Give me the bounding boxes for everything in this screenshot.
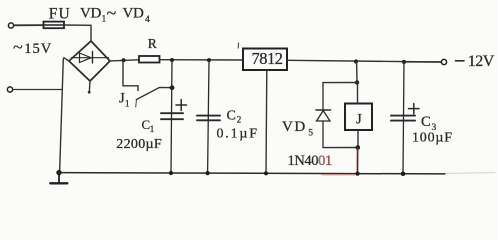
svg-text:4: 4: [145, 15, 150, 25]
wire (7812 ground pin): [265, 70, 268, 173]
wire (bottom rail): [59, 173, 445, 174]
terminal T1 (AC input top): [8, 23, 13, 28]
node (C3 to rail): [401, 171, 406, 176]
regulator U1 7812: [243, 49, 287, 71]
node E: [402, 60, 406, 64]
node G: [356, 145, 361, 150]
wire: [357, 148, 359, 174]
node A: [122, 58, 126, 62]
wire (bridge negative stub): [88, 81, 91, 92]
label + (C1 polarity): [176, 100, 187, 111]
terminal T2 (AC input bottom): [7, 87, 12, 92]
node C: [207, 58, 211, 62]
bridge rectifier VD1-VD4: [69, 41, 110, 81]
node (ground junction): [56, 170, 61, 175]
svg-text:12V: 12V: [468, 53, 495, 70]
fuse FU: [44, 22, 65, 29]
wire: [404, 61, 441, 63]
svg-text:VD: VD: [123, 6, 145, 22]
node D: [354, 59, 358, 63]
svg-text:R: R: [148, 36, 157, 51]
wire: [64, 25, 91, 41]
ground: [50, 173, 67, 184]
node B: [170, 58, 174, 62]
capacitor C2: [197, 60, 220, 173]
faint scan smudge: [447, 173, 495, 174]
wire (relay branch top): [356, 62, 358, 83]
relay contact J1: [123, 60, 172, 99]
svg-text:100µF: 100µF: [412, 130, 453, 145]
red underline (annotation): [322, 174, 356, 176]
svg-text:2: 2: [237, 114, 242, 124]
svg-text:2200µF: 2200µF: [116, 137, 162, 152]
svg-text:0.1µF: 0.1µF: [217, 127, 259, 142]
wire (relay pins): [357, 83, 359, 104]
capacitor C1: [161, 60, 183, 173]
relay coil J: [345, 104, 372, 131]
label -12V: [456, 60, 465, 62]
wire (bottom node horizontal): [323, 147, 358, 149]
node (7812 gnd to rail): [264, 171, 268, 175]
svg-text:7812: 7812: [252, 49, 283, 68]
svg-text:FU: FU: [49, 6, 71, 23]
svg-text:C: C: [227, 109, 236, 124]
svg-text:5: 5: [308, 128, 313, 138]
wire: [13, 89, 63, 91]
node (C2 to rail): [206, 171, 210, 175]
node F: [355, 80, 359, 84]
svg-text:C: C: [421, 114, 431, 130]
scan tick mark: [237, 43, 239, 48]
svg-text:J: J: [356, 112, 362, 128]
wire: [323, 82, 357, 84]
terminal T3 (DC output): [441, 59, 446, 64]
node (C1 to rail): [169, 171, 173, 175]
resistor R: [139, 56, 160, 63]
svg-text:1: 1: [150, 124, 155, 134]
wire: [60, 58, 69, 173]
node (relay branch to rail): [356, 172, 360, 176]
label + (C3 polarity): [409, 104, 420, 114]
node (J1 to C1 branch): [170, 85, 175, 90]
wire: [160, 59, 244, 61]
capacitor C3: [391, 62, 415, 174]
svg-text:1N4001: 1N4001: [288, 153, 332, 169]
wire: [14, 24, 44, 26]
svg-text:~: ~: [107, 3, 117, 23]
svg-text:1: 1: [125, 99, 130, 109]
diode VD5: [316, 83, 331, 148]
svg-text:VD: VD: [80, 6, 102, 22]
svg-text:VD: VD: [282, 119, 307, 135]
wire (positive rail from bridge): [110, 60, 139, 61]
wire (output rail): [287, 60, 441, 62]
